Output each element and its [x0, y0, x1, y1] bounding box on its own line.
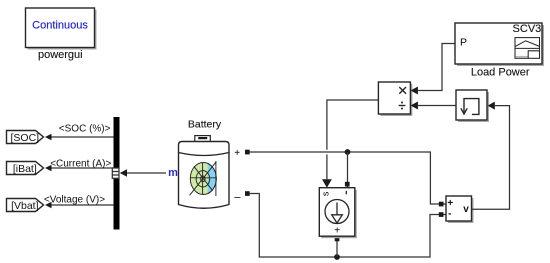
wire current source + to bottom rail — [336, 241, 338, 257]
svg-text:Continuous: Continuous — [32, 20, 88, 32]
svg-text:v: v — [463, 204, 469, 215]
svg-text:SCV3: SCV3 — [513, 23, 542, 35]
svg-text:[Vbat]: [Vbat] — [11, 200, 39, 212]
battery logo — [190, 161, 217, 196]
x input arrowhead — [411, 87, 418, 95]
signal builder icon — [515, 38, 540, 59]
battery body — [179, 142, 230, 209]
svg-text:–: – — [234, 191, 241, 203]
svg-text:+: + — [447, 198, 453, 209]
svg-text:Load Power: Load Power — [471, 67, 530, 79]
voltage measurement block U_vm — [446, 196, 474, 223]
goto tag Vbat — [7, 199, 44, 212]
goto tag SOC — [7, 131, 44, 144]
battery seam — [179, 153, 230, 156]
wire memory out to divide input — [418, 105, 456, 107]
wire junction to current source - port — [347, 152, 349, 188]
svg-text:+: + — [334, 225, 340, 236]
current source + port square — [335, 237, 340, 242]
bus selector bar — [114, 117, 120, 230]
svg-text:P: P — [460, 37, 467, 49]
wire bus to SOC tag — [45, 124, 114, 141]
divide block U_div — [378, 82, 412, 116]
wire battery - to bottom rail to voltage measurement - — [249, 194, 446, 258]
svg-text:<SOC (%)>: <SOC (%)> — [59, 124, 111, 135]
junction on + wire — [345, 149, 351, 155]
divide symbol — [399, 102, 406, 110]
ccs circle — [325, 200, 349, 224]
ccs arrow — [336, 203, 338, 215]
goto tag iBat — [7, 162, 44, 175]
svg-text:-: - — [448, 208, 451, 219]
battery cap — [195, 136, 211, 142]
svg-text:+: + — [234, 148, 240, 159]
s input arrowhead — [322, 179, 332, 188]
ccs - label (rotated dash) — [345, 191, 347, 195]
svg-text:s: s — [321, 191, 331, 196]
memory block U_mem — [456, 90, 489, 122]
times symbol — [399, 87, 406, 94]
powergui block U_powergui — [26, 8, 97, 50]
svg-text:[SOC]: [SOC] — [11, 132, 40, 144]
controlled current source U_ccs — [319, 188, 357, 239]
memory input arrowhead — [488, 102, 495, 110]
junction on bottom rail — [334, 254, 340, 260]
load power block (signal builder SCV3) — [455, 23, 544, 66]
battery - port — [234, 191, 249, 203]
svg-text:[iBat]: [iBat] — [13, 163, 37, 175]
wire divide output to ccs s input — [327, 100, 379, 150]
battery + port — [234, 148, 249, 159]
wire bus to Vbat tag — [44, 194, 114, 208]
svg-text:Battery: Battery — [188, 119, 222, 131]
divide input arrowhead — [411, 102, 418, 110]
wire m from battery to bus — [120, 169, 166, 176]
bus input port marker — [112, 168, 119, 178]
wire battery + to voltage measurement + — [249, 152, 446, 204]
wire bus to iBat tag — [45, 159, 114, 172]
memory loop icon — [461, 99, 479, 115]
wire v output to memory input — [472, 106, 510, 210]
current source - port square — [345, 182, 350, 187]
svg-text:<Current (A)>: <Current (A)> — [50, 159, 111, 170]
wire P to x input — [418, 44, 455, 91]
voltage measurement - port square — [439, 212, 444, 217]
svg-text:powergui: powergui — [38, 49, 83, 61]
svg-text:m: m — [168, 167, 178, 179]
battery B1 — [179, 136, 230, 209]
svg-text:<Voltage (V)>: <Voltage (V)> — [44, 194, 105, 205]
voltage measurement + port square — [439, 202, 444, 207]
